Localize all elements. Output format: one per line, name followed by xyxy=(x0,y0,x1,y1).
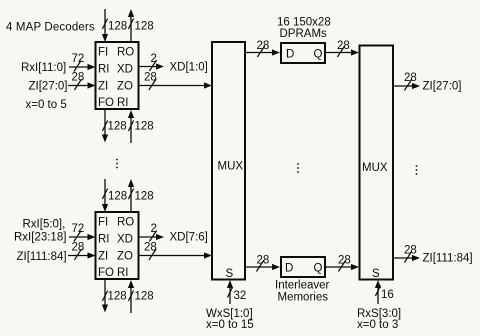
bus width label 28 (ZO) xyxy=(144,72,157,84)
svg-text:28: 28 xyxy=(257,255,270,267)
label DPRAMs xyxy=(280,28,328,40)
label 16 150x28 xyxy=(277,17,331,29)
bus width label 128 (RI bottom box) xyxy=(135,291,154,303)
svg-text:XD[1:0]: XD[1:0] xyxy=(170,62,208,74)
port label RI left (bottom box) xyxy=(98,234,110,246)
svg-text:ZI[111:84]: ZI[111:84] xyxy=(423,253,473,265)
svg-text:Interleaver: Interleaver xyxy=(275,280,330,292)
label 4 MAP Decoders xyxy=(6,22,95,34)
bus slash MUX1-DPRAM xyxy=(257,46,264,57)
bus width label 72 xyxy=(72,53,85,65)
svg-text:x=0 to 15: x=0 to 15 xyxy=(206,319,254,331)
bus width label 128 (RO top) xyxy=(135,21,154,33)
port label ZO xyxy=(117,81,133,93)
port label ZI (bottom box) xyxy=(98,251,108,263)
signal label ZI[111:84] (output) xyxy=(423,253,473,265)
bus slash on RxI wire xyxy=(74,61,81,72)
bus width label 28 (MUX1 bottom out) xyxy=(257,255,270,267)
wire ZI[111:84] output xyxy=(393,255,420,261)
port label D (interleaver) xyxy=(285,263,293,275)
signal label ZI[111:84] xyxy=(17,251,67,263)
signal label XD[1:0] xyxy=(170,62,208,74)
bus width label 16 xyxy=(381,289,394,301)
bus slash on FO output xyxy=(102,121,107,132)
svg-text:16 150x28: 16 150x28 xyxy=(277,17,331,29)
interleaver memory block (D/Q) xyxy=(281,257,325,277)
bus slash DPRAM-MUX2 xyxy=(337,46,344,57)
svg-text:DPRAMs: DPRAMs xyxy=(280,28,328,40)
svg-text:ZI[27:0]: ZI[27:0] xyxy=(29,81,68,93)
svg-text:ZI[111:84]: ZI[111:84] xyxy=(17,251,67,263)
port label FO (bottom box) xyxy=(98,267,114,279)
bus slash RI (bottom box) xyxy=(128,291,133,302)
select port label S (MUX2) xyxy=(372,268,380,280)
svg-text:128: 128 xyxy=(108,21,127,33)
svg-text:RI: RI xyxy=(117,97,129,109)
svg-text:FO: FO xyxy=(98,267,114,279)
svg-text:RI: RI xyxy=(98,64,110,76)
bus slash on RO output xyxy=(128,19,133,30)
label x=0 to 15 xyxy=(206,319,254,331)
svg-text:28: 28 xyxy=(144,72,157,84)
signal label RxI[5:0], xyxy=(23,219,66,231)
wire ZO output to MUX (bottom) xyxy=(139,252,213,258)
wire FO output (128-bit, down) xyxy=(102,109,108,143)
svg-text:RO: RO xyxy=(117,47,134,59)
svg-text:128: 128 xyxy=(108,291,127,303)
bus slash on WxS wire xyxy=(227,287,232,298)
svg-text:28: 28 xyxy=(404,245,417,257)
wire MUX1 to DPRAM D xyxy=(245,49,280,55)
bus slash MUX1-interleaver xyxy=(256,261,263,272)
port label FI xyxy=(98,47,108,59)
svg-text:RxI[23:18]: RxI[23:18] xyxy=(14,232,66,244)
svg-text:72: 72 xyxy=(72,53,85,65)
svg-text:ZI: ZI xyxy=(98,81,108,93)
DPRAM block (D/Q) xyxy=(281,43,325,63)
svg-text:Q: Q xyxy=(314,263,323,275)
port label ZI xyxy=(98,81,108,93)
wire RxI into RI port xyxy=(69,64,96,70)
svg-text:FO: FO xyxy=(98,97,114,109)
svg-text:Q: Q xyxy=(314,49,323,61)
signal label XD[7:6] xyxy=(170,232,208,244)
bus width label 128 (RI bottom) xyxy=(135,121,154,133)
port label RI (left) xyxy=(98,64,110,76)
bus width label 28 (MUX1 top out) xyxy=(257,40,270,52)
bus slash on ZO wire xyxy=(149,79,156,90)
svg-text:XD: XD xyxy=(117,234,133,246)
svg-text:ZI[27:0]: ZI[27:0] xyxy=(423,81,462,93)
MUX 1 (write multiplexer) xyxy=(212,42,245,280)
bus slash on RxI wire (bottom) xyxy=(74,231,81,242)
MAP decoder block (top, x=0 to 5) xyxy=(96,42,139,109)
wire ZI[27:0] output xyxy=(393,83,420,89)
svg-text:128: 128 xyxy=(135,191,154,203)
svg-text:RxI[11:0]: RxI[11:0] xyxy=(21,62,66,74)
label x=0 to 5 xyxy=(26,99,67,111)
bus slash ZI[111:84] out xyxy=(404,252,411,263)
wire RI input (bottom box) xyxy=(128,280,134,313)
svg-text:4 MAP Decoders: 4 MAP Decoders xyxy=(6,22,95,34)
svg-text:RI: RI xyxy=(117,267,129,279)
port label Q (interleaver) xyxy=(314,263,323,275)
svg-text:ZI: ZI xyxy=(98,251,108,263)
bus width label 28 (ZI in bottom) xyxy=(72,242,85,254)
bus slash on XD wire xyxy=(149,60,156,71)
wire FO output (bottom box) xyxy=(102,279,108,313)
signal label RxS[3:0] xyxy=(357,308,401,320)
wire XD[7:6] output xyxy=(139,234,165,240)
svg-text:RI: RI xyxy=(98,234,110,246)
svg-text:XD: XD xyxy=(117,64,133,76)
svg-text:16: 16 xyxy=(381,289,394,301)
bus slash on ZI wire xyxy=(74,79,81,90)
svg-text:S: S xyxy=(372,268,380,280)
bus width label 128 (RO bottom box) xyxy=(135,191,154,203)
wire RI input (128-bit, up into box) xyxy=(128,110,134,143)
port label RI right (bottom box) xyxy=(117,267,129,279)
port label RO (bottom box) xyxy=(117,217,134,229)
svg-text:28: 28 xyxy=(257,40,270,52)
wire ZI into ZI port xyxy=(68,82,96,88)
svg-text:128: 128 xyxy=(135,21,154,33)
svg-text:128: 128 xyxy=(108,191,127,203)
svg-text:x=0 to 3: x=0 to 3 xyxy=(357,319,398,331)
svg-text:28: 28 xyxy=(72,72,85,84)
svg-text:28: 28 xyxy=(338,255,351,267)
label MUX (1) xyxy=(218,161,244,173)
bus width label 28 (DPRAM out) xyxy=(337,40,350,52)
svg-text:ZO: ZO xyxy=(117,251,133,263)
MAP decoder block (bottom) xyxy=(96,212,139,279)
svg-text:FI: FI xyxy=(98,47,108,59)
svg-text:128: 128 xyxy=(135,121,154,133)
bus slash FO (bottom box) xyxy=(102,291,107,302)
port label Q (DPRAM) xyxy=(314,49,323,61)
wire XD[1:0] output xyxy=(139,63,165,69)
ellipsis (more memories) xyxy=(297,163,299,173)
svg-text:FI: FI xyxy=(98,217,108,229)
bus width label 72 (bottom) xyxy=(72,223,85,235)
signal label WxS[1:0] xyxy=(206,308,253,320)
bus slash on FI input xyxy=(102,19,107,30)
bus width label 28 (ZI out top) xyxy=(404,72,417,84)
bus width label 128 (FI bottom box) xyxy=(108,191,127,203)
port label D (DPRAM) xyxy=(286,49,294,61)
bus width label 28 (interleaver out) xyxy=(338,255,351,267)
bus width label 2 (XD bottom) xyxy=(151,223,157,235)
port label FO xyxy=(98,97,114,109)
wire interleaver Q to MUX2 xyxy=(325,264,359,270)
svg-text:D: D xyxy=(285,263,293,275)
wire ZI into ZI port (bottom) xyxy=(68,252,96,258)
svg-text:D: D xyxy=(286,49,294,61)
svg-text:28: 28 xyxy=(72,242,85,254)
wire WxS select input xyxy=(227,280,233,304)
bus slash ZI[27:0] out xyxy=(404,80,411,91)
bus width label 128 (FI top) xyxy=(108,21,127,33)
svg-text:128: 128 xyxy=(108,121,127,133)
wire RO output (bottom box) xyxy=(128,179,134,212)
port label XD (bottom box) xyxy=(117,234,133,246)
wire FI input (bottom box) xyxy=(102,179,108,212)
svg-text:MUX: MUX xyxy=(362,162,388,174)
svg-text:28: 28 xyxy=(337,40,350,52)
signal label RxI[23:18] xyxy=(14,232,66,244)
bus width label 32 xyxy=(234,290,247,302)
wire DPRAM Q to MUX2 xyxy=(325,49,359,55)
signal label RxI[11:0] xyxy=(21,62,66,74)
svg-text:XD[7:6]: XD[7:6] xyxy=(170,232,208,244)
svg-text:128: 128 xyxy=(135,291,154,303)
bus slash on RxS wire xyxy=(375,286,380,297)
bus slash on RI input xyxy=(128,121,133,132)
bus slash on XD wire (bottom) xyxy=(149,231,156,242)
port label FI (bottom box) xyxy=(98,217,108,229)
svg-text:28: 28 xyxy=(144,242,157,254)
svg-text:2: 2 xyxy=(151,53,157,65)
svg-text:72: 72 xyxy=(72,223,85,235)
ellipsis (more decoders) xyxy=(116,159,118,169)
svg-text:ZO: ZO xyxy=(117,81,133,93)
label Interleaver xyxy=(275,280,330,292)
svg-text:RxI[5:0],: RxI[5:0], xyxy=(23,219,66,231)
bus slash RO (bottom box) xyxy=(128,189,133,200)
bus width label 128 (FO bottom box) xyxy=(108,291,127,303)
svg-text:28: 28 xyxy=(404,72,417,84)
bus slash on ZO wire (bottom) xyxy=(149,249,156,260)
wire RxS select input xyxy=(375,280,381,304)
signal label ZI[27:0] (output) xyxy=(423,81,462,93)
svg-text:32: 32 xyxy=(234,290,247,302)
svg-text:S: S xyxy=(226,268,234,280)
label MUX (2) xyxy=(362,162,388,174)
svg-text:MUX: MUX xyxy=(218,161,244,173)
wire MUX1 to interleaver D xyxy=(245,264,280,270)
bus width label 2 (XD) xyxy=(151,53,157,65)
select port label S (MUX1) xyxy=(226,268,234,280)
wire RxI into RI port (bottom) xyxy=(69,234,96,240)
port label ZO (bottom box) xyxy=(117,251,133,263)
bus width label 128 (FO bottom) xyxy=(108,121,127,133)
bus slash on ZI wire (bottom) xyxy=(74,249,81,260)
svg-text:2: 2 xyxy=(151,223,157,235)
signal label ZI[27:0] xyxy=(29,81,68,93)
bus slash interleaver-MUX2 xyxy=(338,261,345,272)
wire ZO output to MUX xyxy=(139,82,213,88)
port label XD xyxy=(117,64,133,76)
bus slash FI (bottom box) xyxy=(102,189,107,200)
svg-text:Memories: Memories xyxy=(278,292,329,304)
port label RI (right) xyxy=(117,97,129,109)
wire FI input (128-bit, into top) xyxy=(102,9,108,42)
svg-text:x=0 to 5: x=0 to 5 xyxy=(26,99,67,111)
MUX 2 (read multiplexer) xyxy=(360,46,394,280)
label Memories xyxy=(278,292,329,304)
bus width label 28 (ZI out bottom) xyxy=(404,245,417,257)
wire RO output (128-bit, up) xyxy=(128,9,134,42)
bus width label 28 (ZI in) xyxy=(72,72,85,84)
label x=0 to 3 xyxy=(357,319,398,331)
bus width label 28 (ZO bottom) xyxy=(144,242,157,254)
svg-text:RO: RO xyxy=(117,217,134,229)
ellipsis (more outputs) xyxy=(416,165,418,175)
port label RO xyxy=(117,47,134,59)
